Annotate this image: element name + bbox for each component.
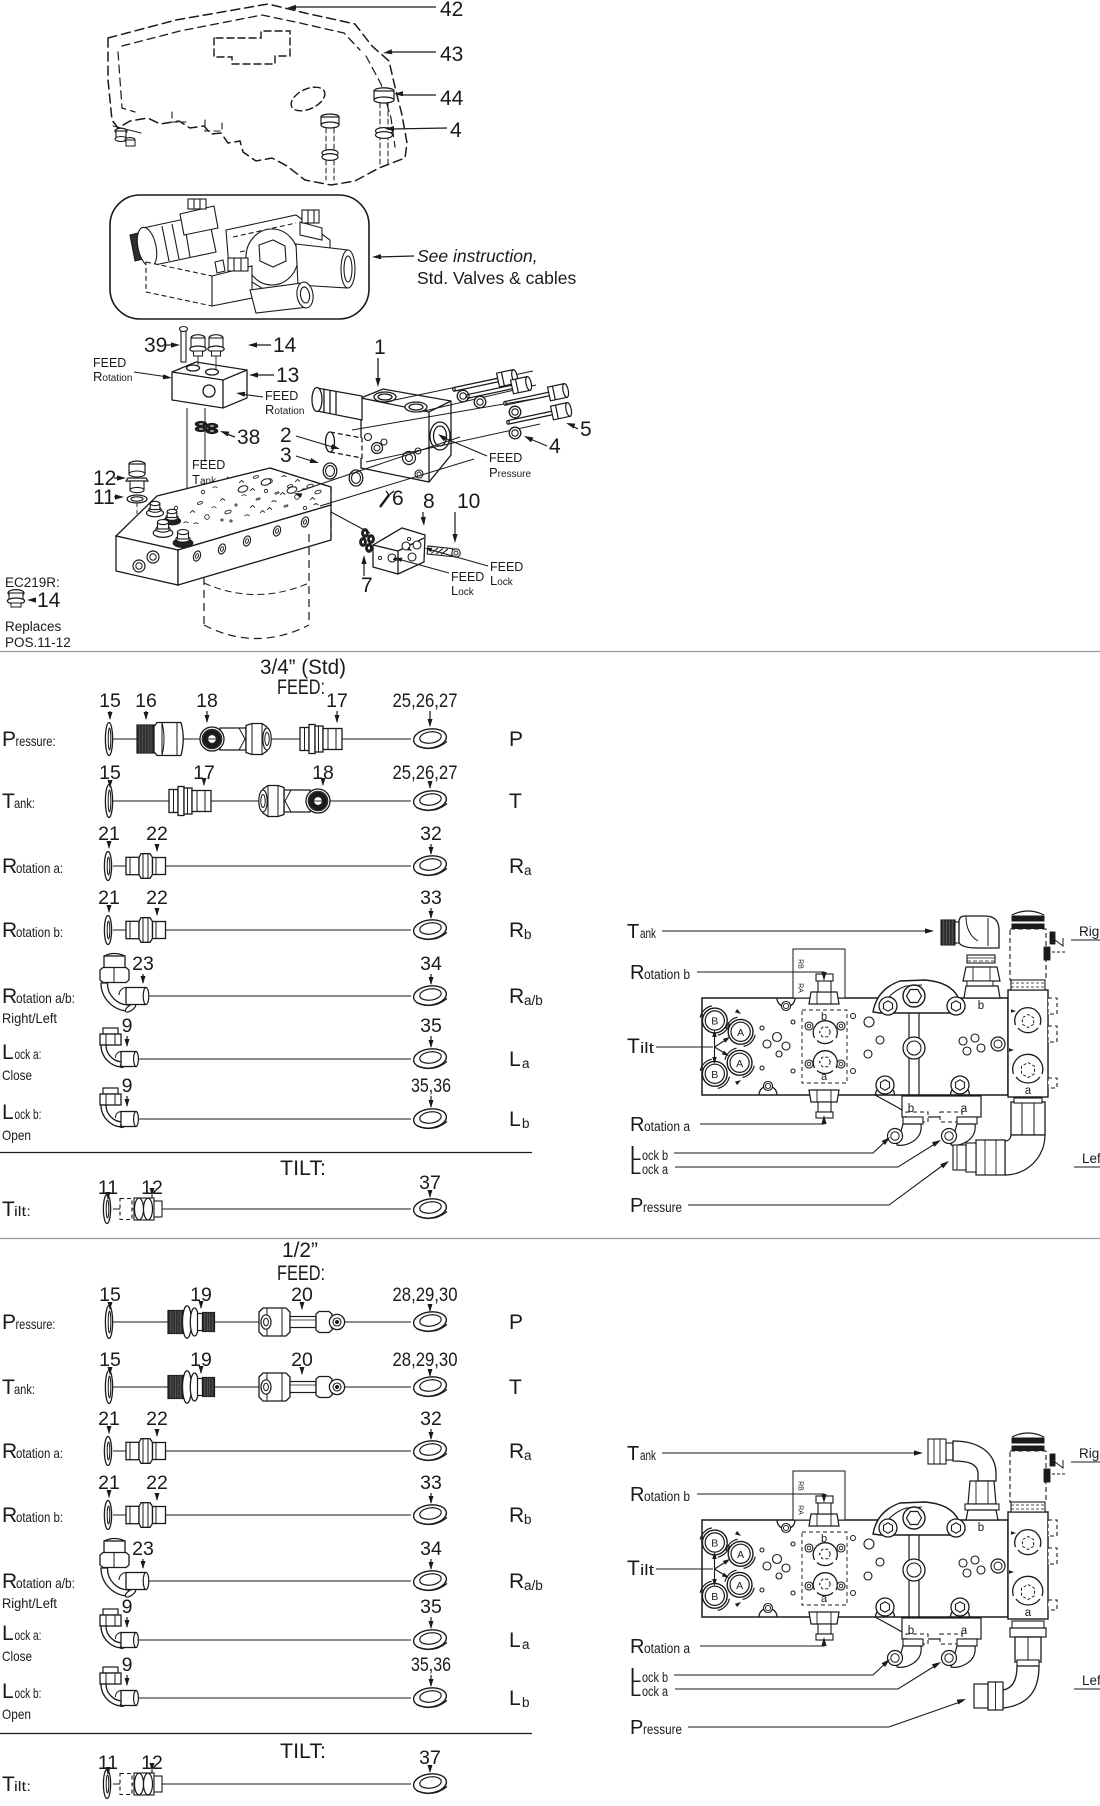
svg-text:35: 35: [420, 1596, 442, 1618]
svg-text:ank:: ank:: [14, 1381, 35, 1397]
svg-text:P: P: [509, 1311, 523, 1334]
svg-text:a: a: [1025, 1085, 1032, 1097]
svg-text:R: R: [630, 1484, 644, 1506]
svg-text:b: b: [522, 1695, 530, 1710]
svg-text:Close: Close: [2, 1067, 32, 1083]
svg-text:P: P: [2, 728, 16, 751]
svg-text:b: b: [524, 1512, 532, 1527]
svg-text:otation b: otation b: [644, 967, 690, 982]
svg-text:22: 22: [146, 823, 168, 845]
svg-text:18: 18: [196, 690, 218, 712]
svg-text:See instruction,: See instruction,: [417, 246, 538, 266]
svg-text:ank:: ank:: [14, 795, 35, 811]
svg-text:R: R: [630, 1114, 644, 1136]
svg-text:otation b:: otation b:: [16, 924, 63, 940]
svg-text:Replaces: Replaces: [5, 619, 62, 634]
svg-text:B: B: [711, 1069, 718, 1081]
svg-text:Std. Valves & cables: Std. Valves & cables: [417, 268, 576, 288]
svg-text:13: 13: [276, 364, 299, 387]
svg-text:L: L: [630, 1157, 641, 1179]
svg-text:35: 35: [420, 1015, 442, 1037]
svg-text:L: L: [2, 1622, 14, 1645]
svg-text:TILT:: TILT:: [280, 1157, 326, 1180]
svg-text:otation a:: otation a:: [16, 1445, 63, 1461]
svg-text:R: R: [2, 985, 17, 1008]
svg-text:b: b: [978, 1000, 984, 1012]
svg-text:ock b:: ock b:: [15, 1685, 42, 1701]
svg-text:ressure:: ressure:: [16, 1316, 56, 1332]
svg-text:a: a: [522, 1637, 530, 1652]
svg-text:ressure: ressure: [643, 1722, 682, 1737]
svg-text:b: b: [821, 1533, 827, 1545]
svg-text:Open: Open: [2, 1127, 31, 1143]
svg-text:ank: ank: [640, 1448, 656, 1463]
svg-text:ilt:: ilt:: [14, 1203, 31, 1219]
svg-text:15: 15: [99, 690, 121, 712]
svg-text:R: R: [509, 1504, 524, 1527]
svg-text:ock a: ock a: [642, 1162, 668, 1177]
svg-text:23: 23: [132, 1538, 154, 1560]
svg-text:R: R: [2, 1570, 17, 1593]
svg-text:FEED: FEED: [265, 389, 298, 403]
svg-text:25,26,27: 25,26,27: [393, 690, 458, 712]
svg-text:9: 9: [122, 1654, 133, 1676]
svg-text:32: 32: [420, 823, 442, 845]
svg-text:ock b: ock b: [642, 1148, 668, 1163]
svg-text:b: b: [978, 1522, 984, 1534]
svg-text:FEED: FEED: [93, 356, 126, 370]
svg-text:a: a: [821, 1593, 828, 1605]
svg-text:A: A: [737, 1549, 744, 1561]
svg-text:ilt: ilt: [640, 1562, 655, 1579]
svg-text:L: L: [509, 1687, 521, 1710]
svg-text:T: T: [509, 1376, 522, 1399]
svg-text:4: 4: [549, 435, 561, 458]
svg-text:Left: Left: [1082, 1151, 1100, 1166]
svg-text:RA: RA: [797, 1505, 804, 1515]
svg-text:Open: Open: [2, 1706, 31, 1722]
svg-text:14: 14: [273, 334, 297, 357]
svg-text:34: 34: [420, 1538, 442, 1560]
svg-text:Right/Left: Right/Left: [2, 1595, 57, 1611]
svg-text:ilt:: ilt:: [14, 1778, 31, 1794]
svg-text:T: T: [627, 1035, 640, 1058]
svg-text:EC219R:: EC219R:: [5, 575, 60, 590]
svg-text:b: b: [524, 927, 532, 942]
svg-text:FEED:: FEED:: [277, 676, 325, 699]
svg-text:ock a: ock a: [642, 1684, 668, 1699]
svg-text:35,36: 35,36: [411, 1075, 451, 1097]
svg-text:17: 17: [326, 690, 348, 712]
svg-text:9: 9: [122, 1596, 133, 1618]
svg-text:5: 5: [580, 418, 592, 441]
svg-text:RB: RB: [797, 959, 804, 969]
svg-text:a: a: [522, 1056, 530, 1071]
svg-text:R: R: [630, 1636, 644, 1658]
svg-text:A: A: [736, 1580, 743, 1592]
svg-text:1/2”: 1/2”: [282, 1239, 318, 1262]
svg-text:L: L: [2, 1041, 14, 1064]
svg-text:L: L: [2, 1101, 14, 1124]
svg-text:otation a/b:: otation a/b:: [16, 990, 75, 1006]
svg-text:22: 22: [146, 887, 168, 909]
svg-text:38: 38: [237, 426, 260, 449]
svg-text:a: a: [524, 863, 532, 878]
svg-text:R: R: [509, 919, 524, 942]
svg-text:3: 3: [280, 444, 292, 467]
svg-text:ock a:: ock a:: [15, 1627, 42, 1643]
svg-text:POS.11-12: POS.11-12: [5, 635, 71, 650]
svg-text:P: P: [2, 1311, 16, 1334]
svg-text:28,29,30: 28,29,30: [393, 1349, 458, 1371]
svg-text:34: 34: [420, 953, 442, 975]
svg-text:T: T: [627, 1557, 640, 1580]
svg-text:R: R: [630, 962, 644, 984]
svg-text:b: b: [821, 1011, 827, 1023]
svg-text:L: L: [2, 1680, 14, 1703]
svg-text:R: R: [509, 855, 524, 878]
svg-text:a: a: [1025, 1607, 1032, 1619]
svg-text:otation a/b:: otation a/b:: [16, 1575, 75, 1591]
svg-text:35,36: 35,36: [411, 1654, 451, 1676]
svg-text:4: 4: [450, 119, 462, 142]
svg-text:otation a: otation a: [644, 1641, 690, 1656]
svg-text:FEED: FEED: [451, 570, 484, 584]
svg-text:32: 32: [420, 1408, 442, 1430]
svg-text:R: R: [509, 1570, 524, 1593]
svg-text:P: P: [630, 1717, 643, 1739]
svg-text:R: R: [2, 1440, 17, 1463]
svg-text:11: 11: [93, 486, 115, 509]
svg-text:otation a: otation a: [644, 1119, 690, 1134]
svg-text:33: 33: [420, 1472, 442, 1494]
svg-text:L: L: [509, 1108, 521, 1131]
svg-text:T: T: [627, 1443, 639, 1465]
svg-text:ock b:: ock b:: [15, 1106, 42, 1122]
svg-text:ressure:: ressure:: [16, 733, 56, 749]
svg-text:FEED:: FEED:: [277, 1262, 325, 1285]
svg-text:28,29,30: 28,29,30: [393, 1284, 458, 1306]
svg-text:a/b: a/b: [524, 1578, 543, 1593]
svg-text:9: 9: [122, 1015, 133, 1037]
svg-text:1: 1: [374, 336, 386, 359]
svg-text:otation b:: otation b:: [16, 1509, 63, 1525]
svg-text:B: B: [711, 1016, 718, 1028]
svg-text:RB: RB: [797, 1481, 804, 1491]
svg-text:B: B: [711, 1538, 718, 1550]
svg-text:R: R: [2, 919, 17, 942]
svg-text:L: L: [509, 1048, 521, 1071]
svg-text:8: 8: [423, 490, 435, 513]
svg-text:R: R: [509, 1440, 524, 1463]
svg-text:25,26,27: 25,26,27: [393, 762, 458, 784]
svg-text:Close: Close: [2, 1648, 32, 1664]
svg-text:ock a:: ock a:: [15, 1046, 42, 1062]
svg-text:ock b: ock b: [642, 1670, 668, 1685]
svg-text:ressure: ressure: [643, 1200, 682, 1215]
svg-text:42: 42: [440, 0, 463, 21]
svg-text:R: R: [2, 855, 17, 878]
svg-text:FEED: FEED: [192, 458, 225, 472]
svg-text:A: A: [736, 1058, 743, 1070]
svg-text:6: 6: [392, 487, 404, 510]
svg-text:otation a:: otation a:: [16, 860, 63, 876]
svg-text:Right/Left: Right/Left: [2, 1010, 57, 1026]
svg-text:T: T: [509, 790, 522, 813]
svg-text:Right: Right: [1079, 924, 1100, 939]
svg-text:otation b: otation b: [644, 1489, 690, 1504]
svg-text:44: 44: [440, 87, 464, 110]
svg-text:T: T: [627, 921, 639, 943]
svg-text:a: a: [524, 1448, 532, 1463]
svg-text:Right: Right: [1079, 1446, 1100, 1461]
svg-text:9: 9: [122, 1075, 133, 1097]
svg-text:P: P: [630, 1195, 643, 1217]
svg-text:39: 39: [144, 334, 167, 357]
svg-text:14: 14: [37, 589, 61, 612]
svg-text:22: 22: [146, 1408, 168, 1430]
svg-text:a: a: [821, 1071, 828, 1083]
svg-text:ank: ank: [640, 926, 656, 941]
svg-text:ilt: ilt: [640, 1040, 655, 1057]
svg-text:Left: Left: [1082, 1673, 1100, 1688]
svg-text:R: R: [2, 1504, 17, 1527]
svg-text:22: 22: [146, 1472, 168, 1494]
svg-text:A: A: [737, 1027, 744, 1039]
svg-text:b: b: [522, 1116, 530, 1131]
svg-text:B: B: [711, 1591, 718, 1603]
svg-text:23: 23: [132, 953, 154, 975]
svg-text:43: 43: [440, 43, 463, 66]
svg-text:FEED: FEED: [490, 560, 523, 574]
svg-text:16: 16: [135, 690, 157, 712]
svg-text:L: L: [630, 1679, 641, 1701]
svg-text:FEED: FEED: [489, 451, 522, 465]
svg-text:7: 7: [361, 574, 373, 597]
svg-text:TILT:: TILT:: [280, 1740, 326, 1763]
svg-text:33: 33: [420, 887, 442, 909]
svg-text:RA: RA: [797, 983, 804, 993]
svg-text:10: 10: [457, 490, 480, 513]
svg-text:a/b: a/b: [524, 993, 543, 1008]
svg-text:R: R: [509, 985, 524, 1008]
svg-text:L: L: [509, 1629, 521, 1652]
svg-text:P: P: [509, 728, 523, 751]
